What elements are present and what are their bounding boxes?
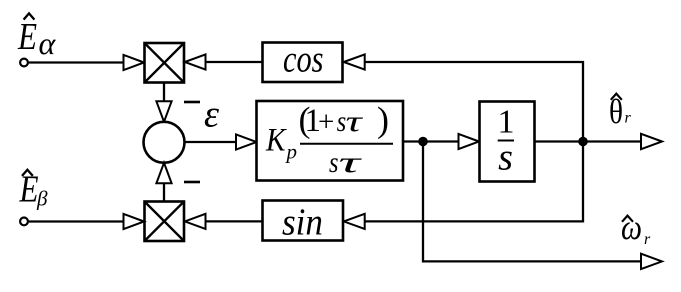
wire E_beta to M2 [29,220,124,222]
wire feedback from node B up to cos [365,62,583,142]
svg-text:sin: sin [282,202,323,244]
svg-text:K: K [265,123,287,159]
svg-text:s: s [329,146,339,179]
label E_alpha [17,13,56,61]
sin block [263,201,344,244]
label theta_r [609,92,632,131]
svg-text:r: r [644,231,651,248]
wire summer to PI block [185,141,237,143]
svg-text:E: E [17,16,37,58]
PI block Kp(1+s tau)/(s tau) [257,99,404,180]
node B junction dot [578,137,588,147]
integrator block 1/s [480,102,535,182]
node A junction dot [418,137,428,147]
minus sign (bottom input of summer) [184,181,200,184]
label E_beta [19,169,48,211]
wire node B to theta_r output [583,140,641,142]
wire sin to multiplier M2 [206,220,263,222]
cos block [263,39,343,83]
svg-text:τ: τ [346,105,364,138]
wire node A down to omega_r output [423,142,641,262]
multiplier M2 (bottom) [145,202,185,242]
svg-text:+: + [318,106,334,138]
node E_beta input terminal [20,218,28,226]
node E_alpha input terminal [20,59,28,67]
svg-text:ε: ε [204,94,219,136]
svg-text:τ: τ [339,146,363,179]
summer S1 [144,122,185,163]
wire node B down to sin block [365,142,583,222]
svg-text:): ) [377,99,389,139]
svg-text:cos: cos [283,39,324,81]
svg-text:r: r [625,110,632,127]
svg-text:β: β [36,187,48,211]
minus sign (top input of summer) [184,101,200,104]
label omega_r [621,207,651,248]
svg-text:s: s [498,137,513,179]
svg-text:1: 1 [498,104,515,141]
wire integrator to node B [535,140,584,142]
wire M2 up to summer [163,183,165,201]
svg-text:p: p [285,140,298,164]
svg-text:ω: ω [621,207,642,247]
wire PI block to integrator, with node A [403,140,459,142]
svg-text:α: α [39,25,57,61]
wire M1 down to summer [163,83,165,102]
wire E_alpha to multiplier M1 [29,61,124,63]
wire cos block to M1 [206,61,263,63]
multiplier M1 (top) [145,43,185,83]
